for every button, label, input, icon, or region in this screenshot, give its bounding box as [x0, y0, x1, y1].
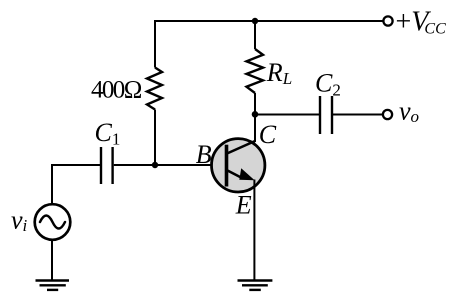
transistor collector stroke — [227, 141, 255, 154]
capacitor C1 — [101, 147, 113, 184]
wire C2 to vo terminal — [333, 114, 382, 116]
transistor base bar — [225, 145, 229, 187]
wire top rail down to RL — [254, 20, 256, 49]
svg-text:E: E — [235, 191, 252, 220]
wire resistor bottom to base node — [154, 110, 156, 166]
resistor RL — [247, 49, 264, 93]
wire C1 to base — [114, 164, 226, 166]
node collector junction — [252, 111, 259, 118]
svg-text:B: B — [196, 140, 212, 169]
svg-text:C: C — [259, 120, 277, 149]
capacitor C2 — [320, 96, 332, 134]
terminal vo — [383, 110, 392, 119]
terminal +VCC — [383, 16, 392, 25]
wire top rail — [155, 20, 383, 22]
wire from top rail down to 400-ohm resistor — [154, 20, 156, 68]
node base junction — [152, 162, 158, 168]
wire collector up to node — [254, 115, 256, 143]
wire RL bottom to collector node — [254, 93, 256, 115]
node junction top rail — [252, 18, 258, 24]
ground (emitter) — [238, 281, 273, 290]
resistor 400 ohm — [147, 68, 162, 110]
transistor emitter arrow — [239, 168, 254, 180]
source vi (AC) — [35, 204, 71, 240]
transistor Q1 body — [212, 139, 265, 192]
wire source to C1 — [52, 165, 100, 204]
ground (source) — [36, 281, 70, 290]
wire collector node to C2 — [255, 114, 319, 116]
transistor emitter stroke — [228, 171, 244, 179]
wire emitter to ground — [253, 180, 255, 281]
wire source to ground — [51, 241, 53, 281]
svg-text:400Ω: 400Ω — [91, 77, 142, 104]
